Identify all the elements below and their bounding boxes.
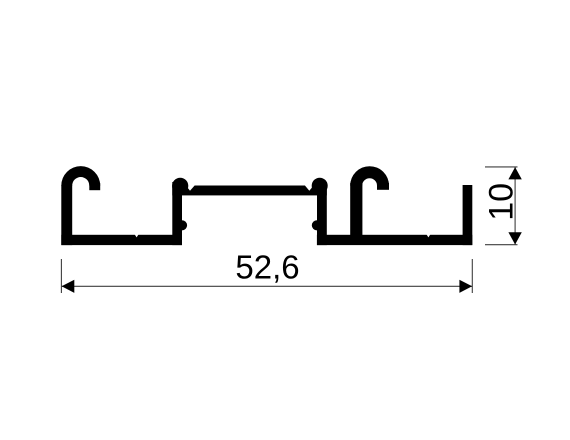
svg-text:10: 10 — [482, 183, 520, 221]
dimension line width 52,6 — [62, 285, 473, 287]
arrowhead right — [459, 280, 472, 293]
profile right riser head bead — [312, 178, 328, 194]
profile left riser side bead — [177, 220, 187, 230]
identification notch right (white v-mark) — [426, 234, 430, 237]
arrowhead top — [508, 167, 521, 179]
extension line top (height dim) — [485, 166, 518, 168]
profile left hook leg — [89, 183, 100, 190]
extension line bottom (height dim) — [485, 244, 518, 246]
profile right riser side bead — [312, 220, 322, 230]
dimension line height 10 — [514, 167, 516, 244]
profile left riser head bead — [172, 178, 188, 194]
profile left wall — [61, 185, 72, 245]
profile top bar (hat crown) — [172, 186, 326, 196]
profile middle hook bend — [350, 166, 389, 185]
identification notch left (white v-mark) — [135, 234, 139, 237]
extension line right (width dim) — [471, 259, 473, 293]
profile bottom bar right segment — [317, 235, 472, 245]
svg-text:52,6: 52,6 — [235, 249, 299, 286]
profile middle hook leg — [377, 183, 389, 190]
profile middle hook stem — [350, 183, 362, 236]
profile bottom bar left segment — [61, 235, 182, 245]
extension line left (width dim) — [60, 259, 62, 293]
profile left riser — [172, 182, 182, 245]
arrowhead left — [62, 280, 75, 293]
profile right end flange — [463, 185, 473, 245]
profile right riser — [317, 182, 327, 245]
profile left hook bend — [61, 166, 100, 185]
notch left of crown (white wedge) — [185, 185, 195, 191]
arrowhead bottom — [508, 232, 521, 244]
notch right of crown (white wedge) — [304, 185, 314, 191]
